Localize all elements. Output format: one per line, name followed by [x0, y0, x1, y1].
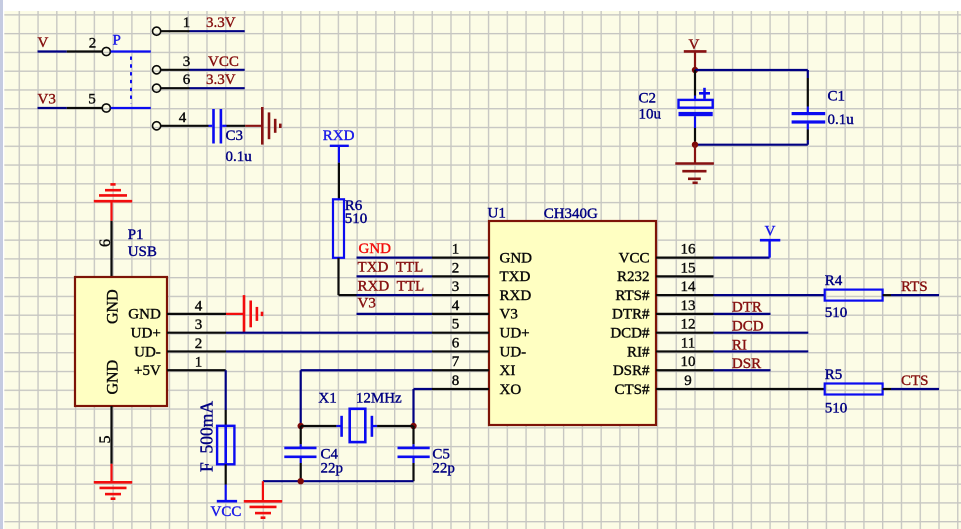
- crystal X1: [301, 425, 337, 427]
- svg-text:10u: 10u: [639, 107, 662, 123]
- junction dot XO: [410, 423, 416, 429]
- svg-text:1: 1: [452, 242, 460, 258]
- svg-text:R4: R4: [825, 273, 843, 289]
- junction dot XI: [298, 423, 304, 429]
- wire net 3.3V pin1: [190, 30, 245, 32]
- svg-text:510: 510: [345, 211, 368, 227]
- wire UD-: [226, 350, 432, 352]
- svg-text:VCC: VCC: [208, 54, 239, 70]
- svg-text:TXD TTL: TXD TTL: [358, 259, 424, 275]
- resistor R6: [333, 199, 344, 257]
- svg-text:V: V: [38, 35, 49, 51]
- pin 3 of U1 (RXD): [432, 294, 489, 296]
- svg-text:0.1u: 0.1u: [828, 112, 855, 128]
- svg-text:15: 15: [681, 260, 696, 276]
- pin 3 of P1 (UD+): [167, 332, 226, 334]
- wire net V: [38, 50, 67, 52]
- svg-text:6: 6: [183, 72, 191, 88]
- connector P1 body: [75, 277, 167, 406]
- wire net RXD: [357, 294, 433, 296]
- pin 15 of U1 (R232): [656, 275, 714, 277]
- wire RTS# pin14: [714, 294, 825, 296]
- resistor R4: [825, 290, 883, 301]
- capacitor C3: [209, 125, 213, 127]
- svg-text:GND: GND: [105, 360, 122, 395]
- pin 4 of P1 (GND): [167, 313, 226, 315]
- svg-text:7: 7: [452, 354, 460, 370]
- pin 2 of P: [67, 50, 102, 52]
- svg-text:USB: USB: [128, 244, 157, 260]
- svg-text:UD+: UD+: [131, 325, 161, 341]
- svg-text:2: 2: [195, 336, 203, 352]
- svg-text:5: 5: [452, 317, 460, 333]
- wire XO down: [414, 388, 433, 390]
- pin 5 of P1: [110, 406, 112, 464]
- svg-text:+5V: +5V: [134, 363, 161, 379]
- wire RI pin11: [714, 350, 809, 352]
- pin 12 of U1 (DCD#): [656, 332, 714, 334]
- capacitor C5: [412, 426, 414, 444]
- svg-text:V3: V3: [358, 296, 376, 312]
- svg-text:UD-: UD-: [500, 344, 527, 360]
- svg-text:P1: P1: [128, 227, 144, 243]
- svg-text:UD-: UD-: [134, 344, 161, 360]
- pin 6 of U1 (UD-): [432, 350, 489, 352]
- svg-text:GND: GND: [359, 241, 392, 257]
- wire pin6 P1: [110, 221, 112, 277]
- svg-text:RI: RI: [732, 337, 747, 353]
- pin 2 of P1 (UD-): [167, 350, 226, 352]
- junction dot V bottom: [692, 142, 698, 148]
- wire net V3: [38, 107, 67, 109]
- svg-text:3.3V: 3.3V: [206, 15, 236, 31]
- svg-text:C1: C1: [828, 89, 846, 105]
- svg-text:GND: GND: [105, 289, 122, 324]
- pin 13 of U1 (DTR#): [656, 313, 714, 315]
- pin 5 of P: [67, 107, 102, 109]
- svg-text:V3: V3: [38, 92, 56, 108]
- ground at C2: [694, 145, 696, 164]
- wire net GND: [357, 257, 433, 259]
- svg-text:DCD: DCD: [732, 318, 764, 334]
- pin 3 of P: [153, 66, 161, 74]
- wire DTR pin13: [714, 313, 771, 315]
- svg-text:510: 510: [825, 401, 848, 417]
- pin 2 of U1 (TXD): [432, 275, 489, 277]
- svg-text:16: 16: [681, 242, 697, 258]
- svg-text:RI#: RI#: [627, 344, 650, 360]
- wire CTS# pin9: [714, 388, 825, 390]
- pin 16 of U1 (VCC): [656, 257, 714, 259]
- svg-text:8: 8: [452, 373, 460, 389]
- svg-text:TXD: TXD: [500, 269, 531, 285]
- svg-text:5: 5: [97, 436, 114, 444]
- svg-text:GND: GND: [128, 307, 161, 323]
- wire DCD pin12: [714, 332, 809, 334]
- svg-text:12: 12: [681, 317, 696, 333]
- svg-text:3: 3: [452, 279, 460, 295]
- svg-text:U1: U1: [488, 206, 506, 222]
- svg-text:RTS: RTS: [901, 279, 928, 295]
- wire R5 to CTS: [883, 388, 891, 390]
- ground at crystal: [262, 481, 264, 501]
- svg-text:10: 10: [681, 354, 696, 370]
- pin 14 of U1 (RTS#): [656, 294, 714, 296]
- op-amp U1 CH340G body: [489, 221, 656, 425]
- wire C3 to ground: [227, 125, 246, 127]
- svg-text:6: 6: [452, 335, 460, 351]
- svg-text:R5: R5: [825, 367, 843, 383]
- capacitor C1: [807, 107, 809, 113]
- svg-text:14: 14: [681, 279, 697, 295]
- wire XI down: [300, 370, 302, 426]
- wire bottom rail C1 C2: [695, 144, 808, 146]
- pin 10 of U1 (DSR#): [656, 369, 714, 371]
- wire down to C1: [807, 70, 809, 78]
- svg-text:C2: C2: [639, 91, 657, 107]
- pin 7 of U1 (XI): [432, 369, 489, 371]
- wire RXD to R6: [338, 163, 340, 200]
- svg-text:XI: XI: [500, 363, 516, 379]
- ground above P1 (inverted): [94, 200, 132, 203]
- ground at C3: [261, 107, 264, 145]
- svg-text:DTR: DTR: [732, 300, 762, 316]
- wire crystal ground rail: [263, 480, 414, 482]
- wire VCC pin16: [714, 257, 770, 259]
- wire net 3.3V pin6: [190, 87, 245, 89]
- svg-text:P: P: [113, 32, 121, 48]
- svg-text:F 500mA: F 500mA: [197, 401, 217, 472]
- svg-text:2: 2: [89, 35, 97, 51]
- svg-text:CTS#: CTS#: [614, 382, 650, 398]
- svg-text:11: 11: [681, 335, 695, 351]
- svg-text:VCC: VCC: [211, 504, 242, 520]
- svg-text:RXD TTL: RXD TTL: [358, 279, 425, 295]
- svg-text:X1: X1: [318, 391, 336, 407]
- svg-text:9: 9: [684, 373, 692, 389]
- svg-text:6: 6: [97, 239, 114, 247]
- wire blue pin2: [111, 50, 151, 52]
- svg-text:22p: 22p: [321, 461, 344, 477]
- svg-text:DTR#: DTR#: [612, 307, 650, 323]
- svg-text:DSR: DSR: [732, 356, 761, 372]
- capacitor C4: [300, 426, 302, 444]
- pin 4 of P: [153, 122, 161, 130]
- svg-text:3: 3: [195, 317, 203, 333]
- svg-text:GND: GND: [500, 250, 533, 266]
- ground below P1: [110, 464, 112, 483]
- svg-text:C3: C3: [226, 128, 244, 144]
- wire DSR pin10: [714, 369, 771, 371]
- capacitor C2: [694, 70, 696, 96]
- svg-text:1: 1: [183, 15, 191, 31]
- svg-text:VCC: VCC: [619, 250, 650, 266]
- junction dot ground rail: [298, 478, 304, 484]
- svg-text:RXD: RXD: [500, 288, 532, 304]
- wire V top rail: [695, 69, 808, 71]
- svg-text:CTS: CTS: [901, 373, 929, 389]
- svg-text:510: 510: [825, 305, 848, 321]
- dashed link of P: [130, 57, 132, 104]
- pin 5 of U1 (UD+): [432, 332, 489, 334]
- svg-text:DSR#: DSR#: [613, 363, 650, 379]
- svg-text:0.1u: 0.1u: [226, 149, 253, 165]
- pin 11 of U1 (RI#): [656, 350, 714, 352]
- wire R4 to RTS: [883, 294, 891, 296]
- pin 8 of U1 (XO): [432, 388, 489, 390]
- fuse F 500mA: [217, 426, 234, 465]
- pin 4 of U1 (V3): [432, 313, 489, 315]
- svg-text:UD+: UD+: [500, 325, 530, 341]
- svg-text:1: 1: [195, 355, 203, 371]
- svg-text:RXD: RXD: [323, 128, 355, 144]
- pin 9 of U1 (CTS#): [656, 388, 714, 390]
- svg-text:V: V: [765, 223, 776, 239]
- pin 1 of U1 (GND): [432, 257, 489, 259]
- svg-text:12MHz: 12MHz: [356, 391, 402, 407]
- svg-text:3: 3: [183, 54, 191, 70]
- svg-text:V3: V3: [500, 307, 518, 323]
- ground at P1 pin4: [226, 313, 244, 315]
- resistor R5: [825, 384, 883, 395]
- pin 1 of P1 (+5V): [167, 369, 226, 371]
- svg-text:5: 5: [88, 92, 96, 108]
- pin 1 of P: [153, 27, 161, 35]
- svg-text:XO: XO: [500, 382, 522, 398]
- svg-text:3.3V: 3.3V: [206, 72, 236, 88]
- svg-text:2: 2: [452, 260, 460, 276]
- svg-text:R232: R232: [617, 269, 650, 285]
- svg-text:CH340G: CH340G: [544, 206, 598, 222]
- wire net V3 chip: [357, 313, 433, 315]
- wire net VCC pin3: [190, 69, 245, 71]
- wire R6 to pin3 row: [337, 258, 339, 295]
- wire net TXD: [357, 275, 433, 277]
- pin 6 of P: [153, 84, 161, 92]
- svg-text:4: 4: [452, 298, 460, 314]
- svg-text:RTS#: RTS#: [615, 288, 650, 304]
- svg-text:13: 13: [681, 298, 696, 314]
- svg-text:4: 4: [195, 298, 203, 314]
- power port VCC (bottom): [225, 485, 227, 502]
- wire blue pin5: [111, 107, 151, 109]
- svg-text:DCD#: DCD#: [610, 325, 650, 341]
- svg-text:22p: 22p: [432, 461, 455, 477]
- power port V (blue, pin16): [768, 240, 770, 257]
- wire UD+: [226, 332, 432, 334]
- junction dot V top: [692, 67, 698, 73]
- svg-text:4: 4: [179, 110, 187, 126]
- wire fuse to VCC port: [225, 464, 227, 484]
- wire +5V down to fuse: [225, 370, 227, 410]
